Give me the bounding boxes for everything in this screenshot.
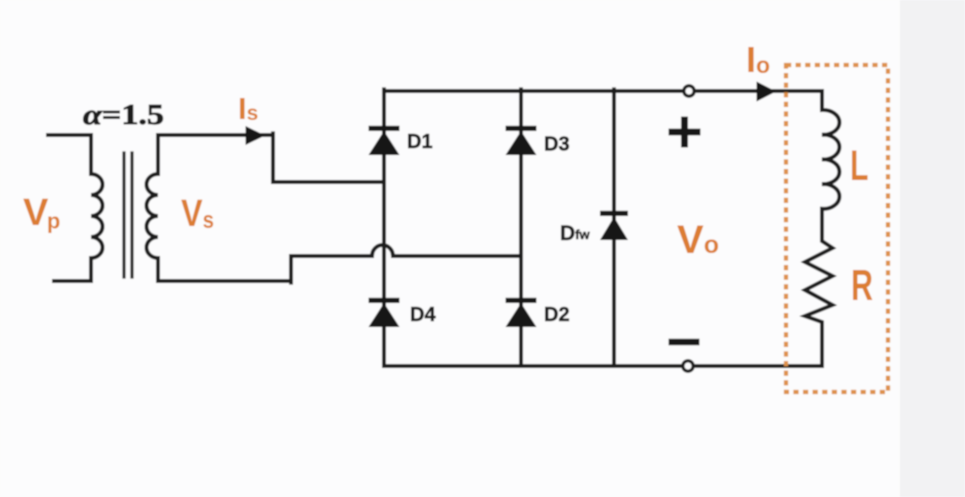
dashed load box: [786, 65, 888, 392]
minus sign: [669, 339, 700, 345]
diode D3: [506, 126, 537, 155]
wire secondary top lead to bridge: [273, 133, 384, 182]
wire freewheeling leg: [612, 89, 616, 366]
diode D4: [369, 298, 400, 327]
transformer T1 core: [124, 153, 132, 277]
diode D1: [369, 126, 400, 155]
arrow Is: [246, 126, 266, 145]
diode Dfw (freewheeling): [600, 211, 628, 240]
transformer T1 secondary winding: [147, 135, 292, 281]
node bottom output (open circle): [683, 361, 693, 371]
transformer T1 primary winding: [48, 135, 103, 281]
wire load branch: lead, inductor, resistor: [805, 91, 839, 366]
svg-text:D4: D4: [410, 304, 436, 326]
diode D2: [506, 298, 537, 327]
wire bridge top rail: [384, 89, 822, 93]
svg-text:D1: D1: [407, 131, 433, 153]
wire bridge bottom rail: [384, 364, 822, 368]
plus sign: [669, 117, 701, 148]
svg-text:α=1.5: α=1.5: [83, 99, 164, 131]
wire bridge middle leg: [519, 89, 523, 366]
svg-text:L: L: [850, 142, 869, 190]
arrow Io: [757, 82, 777, 102]
svg-text:R: R: [851, 261, 873, 310]
svg-text:D3: D3: [544, 134, 570, 156]
svg-text:D2: D2: [544, 304, 570, 326]
node top output (open circle): [684, 86, 694, 96]
wire secondary bottom lead to bridge with hop over left rail: [291, 245, 521, 283]
wire bridge left leg: [382, 89, 386, 366]
